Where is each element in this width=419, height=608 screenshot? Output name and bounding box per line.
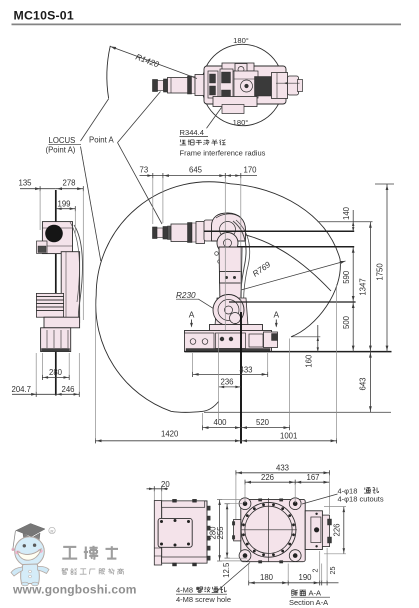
label 4-d18 leader — [302, 494, 338, 504]
svg-text:280: 280 — [49, 368, 63, 377]
envelope top extension line — [375, 183, 394, 185]
section side view inner plate — [158, 518, 192, 547]
svg-text:433: 433 — [276, 464, 289, 473]
envelope cusp extension line — [291, 336, 320, 338]
svg-text:140: 140 — [342, 206, 351, 220]
shoulder line D — [229, 301, 356, 303]
svg-text:278: 278 — [63, 178, 76, 187]
left robot head block — [42, 222, 72, 254]
logo text smart factory — [62, 568, 64, 570]
svg-text:A: A — [189, 310, 195, 320]
svg-text:255: 255 — [216, 526, 225, 540]
main robot forearm — [219, 247, 242, 305]
svg-text:A: A — [274, 310, 280, 320]
svg-text:Section A-A: Section A-A — [289, 598, 328, 607]
top view robot wrist tool — [153, 80, 158, 92]
section side view top bolts — [173, 499, 177, 502]
main robot base — [185, 331, 272, 352]
main robot cable — [233, 221, 246, 309]
svg-text:MC10S-01: MC10S-01 — [14, 9, 74, 23]
svg-text:LOCUS: LOCUS — [49, 136, 76, 145]
extension line envelope right — [336, 284, 338, 440]
svg-text:4-M8 screw hole: 4-M8 screw hole — [176, 595, 231, 604]
svg-text:20: 20 — [161, 480, 170, 489]
svg-text:1001: 1001 — [280, 432, 297, 441]
work envelope right arc — [231, 184, 341, 337]
svg-text:180: 180 — [260, 573, 274, 582]
wrist top reference line A — [318, 221, 373, 223]
logo mascot cap — [16, 524, 45, 537]
label frame interference radius (cn) — [180, 140, 182, 143]
left robot arm column — [61, 252, 79, 323]
left robot head side attach — [37, 241, 48, 253]
svg-text:236: 236 — [221, 378, 234, 387]
Point A leader to main view wrist — [118, 143, 163, 224]
svg-text:400: 400 — [214, 418, 228, 427]
top view robot body top block — [222, 63, 254, 71]
label 4-M8 leader — [216, 563, 250, 593]
svg-text:520: 520 — [256, 418, 270, 427]
section side view top band — [162, 501, 205, 507]
logo mascot tassel — [13, 531, 16, 549]
base floor line — [185, 351, 392, 353]
section AA far right part — [322, 515, 329, 547]
left robot cable — [74, 225, 82, 322]
logo mascot body — [21, 564, 40, 584]
svg-text:12.5: 12.5 — [222, 562, 231, 578]
top view robot bottom block — [213, 97, 257, 107]
work envelope left arc — [96, 182, 231, 413]
main robot tool — [153, 227, 158, 239]
svg-text:135: 135 — [19, 178, 33, 187]
section AA right attach — [305, 511, 322, 550]
svg-text:R769: R769 — [251, 260, 273, 279]
extension line x40 — [39, 191, 41, 231]
main robot forearm band — [220, 272, 242, 284]
svg-text:4-φ18 cutouts: 4-φ18 cutouts — [338, 495, 384, 504]
extension line envelope left — [95, 300, 97, 440]
extension line x152.8 — [152, 178, 154, 224]
section AA flange inner circle — [245, 506, 292, 553]
svg-text:246: 246 — [62, 385, 75, 394]
R1420 leader line — [111, 47, 198, 79]
svg-text:645: 645 — [189, 166, 203, 175]
svg-text:643: 643 — [359, 377, 368, 390]
svg-text:190: 190 — [299, 573, 313, 582]
section AA flange outer circle — [241, 502, 296, 557]
svg-text:1420: 1420 — [161, 429, 179, 438]
logo mascot head — [15, 537, 45, 567]
section 280 255 extension lines — [217, 498, 240, 500]
extension line x218.6 — [218, 333, 220, 403]
main robot lower link — [215, 298, 248, 326]
logo mascot face — [23, 544, 26, 547]
extension line x83 — [82, 191, 84, 321]
main robot wrist — [171, 224, 188, 242]
main robot base bottom band — [186, 349, 270, 352]
extension line cusp down — [289, 339, 291, 428]
R230 leader — [199, 299, 222, 313]
section side view body — [162, 501, 207, 563]
section AA left attach — [234, 519, 241, 541]
svg-text:226: 226 — [261, 473, 274, 482]
main robot wrist flange — [196, 222, 205, 244]
top view robot wrist flange — [195, 75, 204, 96]
svg-text:2: 2 — [310, 569, 319, 573]
elbow line C — [237, 246, 354, 248]
wrist line B — [204, 230, 354, 232]
Point A leader to top view wrist — [118, 92, 161, 143]
left robot base — [41, 328, 71, 352]
rotation axis line right — [276, 82, 300, 84]
top view robot wrist cylinder — [168, 78, 189, 94]
main robot swivel flange — [210, 325, 263, 333]
section side view right tabs — [207, 506, 210, 510]
left robot motor — [45, 225, 63, 243]
svg-text:R1420: R1420 — [134, 52, 160, 69]
LOCUS leader to envelope — [81, 147, 101, 262]
section bottom extension lines — [248, 564, 250, 582]
logo mascot feet — [22, 582, 29, 586]
left robot flange — [44, 317, 80, 328]
svg-text:590: 590 — [342, 270, 351, 284]
svg-text:4-M8: 4-M8 — [176, 586, 193, 595]
svg-text:226: 226 — [332, 523, 341, 536]
svg-text:204.7: 204.7 — [12, 385, 32, 394]
main robot shoulder joint — [213, 295, 244, 326]
left robot centerline — [55, 190, 57, 396]
svg-text:433: 433 — [240, 365, 253, 374]
svg-text:www.gongboshi.com: www.gongboshi.com — [12, 583, 137, 597]
logo mascot buttons — [29, 570, 32, 573]
R1420 radius arc fragment — [107, 46, 110, 98]
logo mascot right arm — [38, 566, 50, 573]
svg-text:1750: 1750 — [375, 263, 384, 281]
R344.4 leader — [207, 108, 222, 129]
svg-text:(Point A): (Point A) — [46, 146, 76, 155]
top view robot right end cap — [288, 76, 299, 95]
top view rotation circle — [202, 44, 283, 125]
svg-text:Frame interference radius: Frame interference radius — [180, 148, 266, 157]
svg-text:170: 170 — [244, 166, 258, 175]
svg-text:73: 73 — [140, 166, 149, 175]
main robot base connector — [264, 332, 278, 348]
top view robot rear block — [272, 73, 288, 99]
envelope bottom reference line — [204, 411, 391, 413]
svg-text:25: 25 — [328, 567, 337, 575]
logo text gongboshi cn — [63, 546, 76, 548]
svg-text:167: 167 — [307, 473, 320, 482]
main robot elbow joint — [217, 233, 238, 254]
left robot base bottom band — [42, 349, 70, 352]
label section A-A cn — [291, 590, 293, 595]
main robot upper arm — [204, 220, 238, 241]
svg-text:R230: R230 — [176, 291, 196, 300]
top view robot body — [204, 66, 286, 104]
R769 leader — [241, 261, 346, 290]
section AA corner lobes — [239, 498, 251, 510]
section side view bottom band — [162, 557, 207, 563]
extension line x240.8 J1 upper — [240, 178, 242, 312]
main robot J3 housing — [212, 213, 246, 241]
svg-text:R344.4: R344.4 — [180, 128, 205, 137]
logo registered mark — [49, 527, 55, 533]
J1 centerline thick — [240, 312, 242, 444]
svg-text:180°: 180° — [233, 118, 249, 127]
logo mascot mouth — [18, 549, 42, 560]
section AA flange bolts — [292, 533, 295, 536]
extension line x225.3 — [224, 178, 226, 330]
svg-text:1347: 1347 — [359, 278, 368, 295]
logo mascot left arm — [11, 567, 23, 576]
work envelope inner arc R769 — [238, 233, 331, 291]
left robot J1 motor ribs — [36, 293, 63, 317]
svg-text:Point A: Point A — [89, 136, 115, 145]
svg-text:160: 160 — [304, 354, 313, 368]
LOCUS leader to arc — [81, 99, 109, 142]
svg-text:199: 199 — [58, 200, 71, 209]
section AA crosshair — [241, 529, 297, 531]
top view robot body details — [208, 71, 218, 98]
svg-text:500: 500 — [342, 315, 351, 329]
svg-text:A-A: A-A — [309, 589, 322, 598]
title rule — [12, 23, 402, 25]
extension line x75 — [74, 211, 76, 236]
extension line x162.9 — [162, 178, 164, 223]
section side view left plate — [154, 501, 161, 566]
section top extension lines — [235, 475, 237, 520]
section AA body — [241, 499, 305, 561]
svg-text:180°: 180° — [233, 36, 249, 45]
section AA edge bolts — [259, 499, 262, 502]
main robot base detail — [216, 333, 246, 349]
